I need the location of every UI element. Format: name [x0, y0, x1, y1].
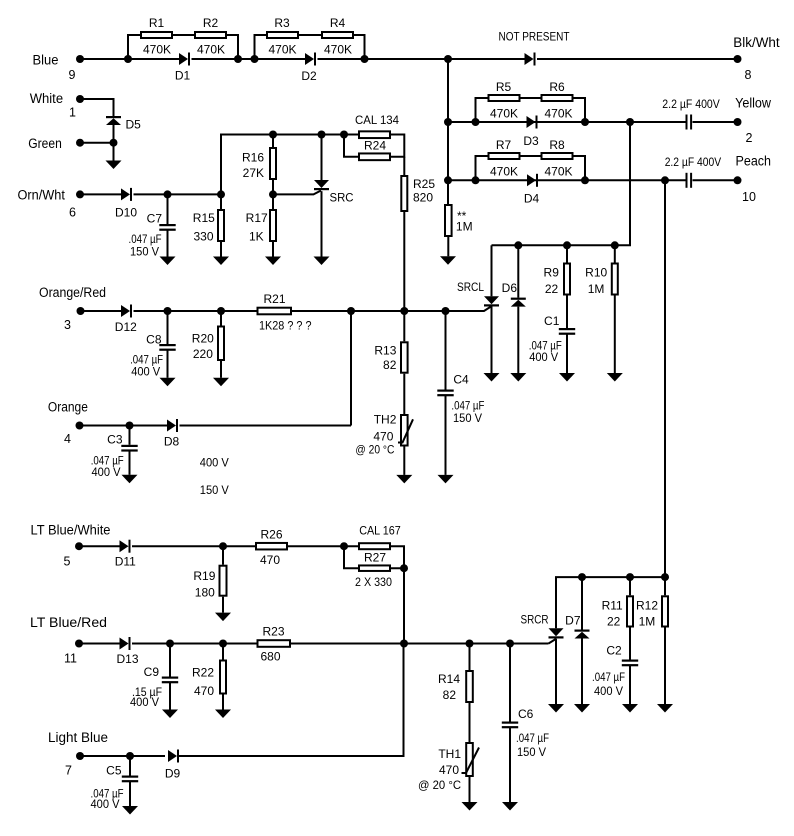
svg-text:C3: C3	[107, 433, 123, 447]
node LT Blue/White (pin 5) terminal	[31, 523, 111, 569]
diode D11	[115, 540, 136, 569]
text 400 V	[200, 456, 229, 470]
wire	[492, 122, 631, 245]
svg-text:C1: C1	[544, 314, 560, 328]
junction	[347, 307, 355, 315]
wire	[469, 777, 471, 802]
resistor R26 470	[256, 528, 287, 567]
svg-text:C8: C8	[146, 332, 162, 346]
wire	[272, 180, 274, 194]
junction	[661, 176, 669, 184]
resistor R14 82	[438, 644, 473, 703]
capacitor C4 .047uF 150V	[437, 311, 484, 425]
node Blue (pin 9) terminal	[33, 53, 85, 83]
ground	[213, 257, 229, 266]
diode D12	[115, 305, 137, 335]
wire SRC gate	[273, 191, 321, 195]
wire	[255, 35, 267, 59]
junction	[219, 640, 227, 648]
svg-text:4: 4	[64, 432, 71, 446]
svg-text:820: 820	[413, 191, 433, 205]
wire	[693, 179, 738, 181]
ground	[106, 161, 122, 170]
svg-text:680: 680	[260, 650, 280, 664]
wire	[509, 728, 511, 802]
junction	[626, 118, 634, 126]
diode D8	[164, 419, 180, 449]
svg-text:D9: D9	[165, 767, 181, 781]
wire	[448, 58, 525, 60]
junction	[400, 564, 408, 572]
wire	[447, 59, 449, 204]
svg-text:C4: C4	[453, 372, 469, 386]
svg-text:D11: D11	[115, 554, 136, 568]
wire	[298, 34, 321, 36]
resistor R27 2x330	[355, 550, 392, 589]
diode D9	[165, 750, 181, 781]
resistor CAL 167	[359, 524, 401, 550]
ground	[574, 704, 590, 713]
wire	[221, 135, 344, 195]
wire	[220, 242, 222, 257]
svg-text:180: 180	[195, 586, 215, 600]
junction	[466, 640, 474, 648]
ground	[215, 710, 231, 719]
wire	[403, 568, 405, 643]
svg-text:2: 2	[746, 131, 753, 145]
wire	[566, 296, 568, 329]
capacitor C5 .047uF 400V	[91, 756, 139, 811]
resistor R8 470K	[542, 138, 573, 179]
wire	[664, 628, 666, 705]
junction	[251, 55, 259, 63]
wire	[132, 643, 257, 645]
junction	[514, 241, 522, 249]
diode D7	[565, 577, 589, 638]
svg-text:5: 5	[64, 555, 71, 569]
svg-text:R15: R15	[193, 211, 215, 225]
junction	[340, 131, 348, 139]
ground	[657, 704, 673, 713]
wire	[491, 307, 493, 374]
node White (pin 1) terminal	[30, 91, 84, 120]
diode D4	[524, 174, 540, 206]
wire	[517, 307, 519, 373]
wire	[129, 451, 131, 475]
wire	[80, 99, 114, 117]
wire	[476, 156, 488, 180]
ground	[440, 256, 456, 265]
svg-text:TH1: TH1	[438, 747, 461, 761]
svg-text:R1: R1	[149, 16, 165, 30]
wire	[80, 193, 121, 195]
svg-text:R9: R9	[544, 266, 560, 280]
resistor R13 82	[374, 311, 407, 373]
svg-text:R23: R23	[262, 625, 284, 639]
resistor R15 330	[193, 194, 224, 243]
resistor CAL 134	[355, 113, 399, 138]
wire	[321, 191, 323, 256]
svg-text:D10: D10	[115, 206, 137, 220]
capacitor C2 .047uF 400V	[592, 644, 638, 698]
svg-text:D8: D8	[164, 435, 180, 449]
wire	[354, 35, 365, 59]
wire	[272, 242, 274, 257]
capacitor C3 .047uF 400V	[91, 426, 138, 480]
capacitor C9 .15uF 400V	[130, 644, 178, 710]
ground	[160, 378, 176, 387]
wire	[537, 58, 738, 60]
ground	[484, 373, 500, 382]
wire SRCL gate	[446, 307, 492, 312]
wire	[403, 157, 405, 175]
junction	[472, 176, 480, 184]
resistor R7 470K	[489, 138, 520, 179]
svg-text:470K: 470K	[324, 43, 352, 57]
svg-text:D2: D2	[301, 69, 317, 83]
junction	[340, 542, 348, 550]
svg-text:R19: R19	[193, 569, 215, 583]
wire	[80, 425, 168, 427]
wire	[288, 545, 358, 547]
resistor R3 470K	[267, 16, 298, 57]
svg-text:2 X 330: 2 X 330	[355, 575, 392, 589]
wire	[173, 34, 194, 36]
svg-text:470K: 470K	[143, 43, 171, 57]
wire	[469, 703, 471, 742]
resistor R16 27K	[242, 135, 276, 181]
ground	[213, 378, 229, 387]
thyristor SRCL	[457, 245, 499, 306]
wire	[344, 135, 358, 157]
svg-text:470: 470	[439, 763, 459, 777]
thermistor TH2 470	[355, 413, 413, 457]
svg-text:150 V: 150 V	[517, 745, 546, 759]
svg-text:11: 11	[64, 652, 77, 666]
svg-text:400 V: 400 V	[594, 684, 623, 698]
svg-text:D13: D13	[116, 652, 138, 666]
svg-text:400 V: 400 V	[130, 695, 159, 709]
junction	[581, 118, 589, 126]
junction	[318, 131, 326, 139]
diode D6	[502, 245, 526, 306]
wire	[222, 597, 224, 613]
svg-text:R20: R20	[192, 332, 214, 346]
junction	[400, 640, 408, 648]
wire	[220, 361, 222, 378]
svg-text:Blk/Wht: Blk/Wht	[733, 35, 780, 50]
resistor R4 470K	[322, 16, 353, 57]
junction	[124, 55, 132, 63]
resistor R2 470K	[195, 16, 226, 57]
svg-text:D3: D3	[523, 134, 539, 148]
svg-text:@ 20 °C: @ 20 °C	[418, 778, 461, 792]
svg-text:Blue: Blue	[33, 53, 59, 68]
ground	[438, 475, 454, 484]
wire	[555, 639, 557, 704]
svg-text:Green: Green	[28, 136, 62, 151]
svg-text:R11: R11	[602, 598, 623, 612]
wire	[227, 35, 238, 59]
svg-text:2.2 µF 400V: 2.2 µF 400V	[665, 155, 722, 169]
diode D13	[116, 637, 138, 666]
wire	[128, 58, 179, 60]
wire	[614, 296, 616, 374]
junction	[361, 55, 369, 63]
wire	[167, 230, 169, 256]
svg-text:.047 µF: .047 µF	[516, 731, 549, 745]
svg-text:C5: C5	[106, 764, 122, 778]
svg-text:1: 1	[69, 106, 76, 120]
svg-text:R8: R8	[549, 138, 565, 152]
wire	[403, 447, 405, 475]
node Green terminal	[28, 136, 84, 151]
junction	[219, 542, 227, 550]
svg-text:470K: 470K	[490, 107, 518, 121]
svg-text:R21: R21	[263, 292, 285, 306]
wire	[521, 155, 541, 157]
resistor R1 470K	[141, 16, 172, 57]
svg-text:D6: D6	[502, 281, 518, 295]
svg-text:R26: R26	[260, 528, 282, 542]
ground	[162, 710, 178, 719]
svg-text:R17: R17	[246, 211, 268, 225]
svg-text:2.2 µF 400V: 2.2 µF 400V	[662, 97, 720, 111]
junction	[269, 190, 277, 198]
resistor ** 1M	[445, 205, 473, 236]
svg-text:1M: 1M	[639, 615, 656, 629]
svg-text:CAL 134: CAL 134	[355, 113, 399, 127]
capacitor C7 .047uF 150V	[129, 194, 176, 258]
svg-text:D7: D7	[565, 614, 581, 628]
ground	[502, 802, 518, 811]
wire	[113, 125, 115, 143]
wire	[167, 350, 169, 378]
wire	[344, 134, 358, 136]
wire	[574, 156, 586, 180]
svg-text:R12: R12	[636, 598, 658, 612]
wire	[180, 425, 352, 427]
junction	[444, 55, 452, 63]
wire	[79, 545, 120, 547]
resistor R5 470K	[489, 80, 520, 120]
ground	[265, 257, 281, 266]
svg-text:27K: 27K	[243, 166, 264, 180]
svg-text:CAL 167: CAL 167	[359, 524, 401, 538]
svg-text:400 V: 400 V	[92, 465, 121, 479]
svg-text:470K: 470K	[268, 43, 296, 57]
svg-text:R27: R27	[364, 550, 386, 564]
svg-text:R7: R7	[496, 138, 512, 152]
text 150 V	[200, 483, 229, 497]
thyristor SRCR	[521, 613, 564, 639]
thermistor TH1 470	[418, 743, 479, 792]
junction	[269, 131, 277, 139]
svg-text:R13: R13	[374, 343, 396, 357]
resistor R17 1K	[246, 194, 276, 243]
svg-text:8: 8	[745, 68, 752, 82]
ground	[622, 704, 638, 713]
svg-text:R22: R22	[192, 666, 214, 680]
ground	[548, 704, 564, 713]
wire	[129, 782, 131, 806]
junction	[581, 176, 589, 184]
svg-text:R25: R25	[413, 177, 435, 191]
junction	[442, 307, 450, 315]
junction	[444, 118, 452, 126]
wire	[178, 644, 404, 757]
wire	[476, 98, 488, 122]
svg-text:Peach: Peach	[736, 154, 772, 169]
wire SRCR gate	[549, 639, 557, 644]
node Orn/Wht (pin 6) terminal	[18, 187, 85, 219]
svg-text:C6: C6	[518, 707, 534, 721]
svg-text:1M: 1M	[588, 282, 605, 296]
resistor R20 220	[192, 311, 224, 361]
svg-text:9: 9	[69, 68, 76, 82]
svg-text:R14: R14	[438, 672, 460, 686]
node Peach (pin 10) terminal	[734, 154, 772, 205]
svg-text:C7: C7	[147, 211, 163, 225]
ground	[122, 806, 138, 815]
wire	[403, 212, 405, 311]
ground	[314, 257, 330, 266]
svg-text:C9: C9	[144, 665, 160, 679]
svg-text:150 V: 150 V	[200, 483, 229, 497]
svg-text:150 V: 150 V	[130, 245, 159, 259]
wire	[318, 58, 449, 60]
resistor R25 820	[401, 176, 435, 211]
svg-text:Yellow: Yellow	[735, 95, 771, 110]
svg-text:NOT PRESENT: NOT PRESENT	[499, 30, 571, 44]
svg-text:R3: R3	[274, 16, 290, 30]
junction	[126, 422, 134, 430]
junction	[444, 176, 452, 184]
svg-text:470K: 470K	[544, 107, 572, 121]
ground	[122, 475, 138, 484]
svg-text:R24: R24	[364, 138, 386, 152]
wire	[80, 755, 165, 757]
junction	[563, 241, 571, 249]
wire	[132, 545, 255, 547]
svg-text:Orange: Orange	[48, 400, 88, 415]
svg-text:R5: R5	[496, 80, 512, 94]
junction	[661, 573, 669, 581]
ground	[160, 257, 176, 266]
svg-text:White: White	[30, 91, 63, 106]
resistor R22 470	[192, 644, 226, 698]
wire	[255, 58, 306, 60]
ground	[559, 373, 575, 382]
capacitor C1 .047uF 400V	[529, 314, 575, 364]
wire	[391, 135, 404, 157]
svg-text:400 V: 400 V	[529, 350, 558, 364]
node Light Blue (pin 7) terminal	[48, 730, 108, 778]
wire	[521, 97, 541, 99]
wire	[79, 643, 120, 645]
thyristor SRC	[314, 135, 354, 205]
wire	[391, 546, 404, 568]
svg-text:7: 7	[65, 764, 72, 778]
junction	[110, 139, 118, 147]
svg-text:22: 22	[607, 615, 621, 629]
svg-text:Orange/Red: Orange/Red	[39, 285, 106, 300]
svg-text:1M: 1M	[456, 219, 473, 233]
svg-text:LT Blue/Red: LT Blue/Red	[30, 615, 107, 630]
junction	[578, 573, 586, 581]
capacitor 2.2uF 400V (Peach)	[665, 155, 722, 188]
svg-text:D12: D12	[115, 320, 137, 334]
diode D1	[175, 53, 191, 83]
wire	[344, 546, 358, 568]
junction	[126, 752, 134, 760]
wire	[445, 396, 447, 475]
svg-text:470: 470	[260, 553, 280, 567]
svg-text:330: 330	[193, 230, 213, 244]
svg-text:1K: 1K	[249, 230, 264, 244]
wire	[80, 142, 114, 144]
svg-text:R6: R6	[549, 80, 565, 94]
svg-text:1K28 ? ? ?: 1K28 ? ? ?	[259, 319, 312, 333]
svg-text:400 V: 400 V	[91, 797, 120, 811]
svg-text:470K: 470K	[544, 165, 572, 179]
wire	[128, 35, 140, 59]
resistor R24	[359, 138, 390, 160]
junction	[506, 640, 514, 648]
svg-text:150 V: 150 V	[453, 411, 482, 425]
wire	[693, 121, 738, 123]
wire	[81, 310, 122, 312]
svg-text:C2: C2	[606, 644, 622, 658]
svg-text:D1: D1	[175, 69, 191, 83]
junction	[472, 118, 480, 126]
svg-text:10: 10	[742, 190, 756, 204]
svg-text:82: 82	[383, 358, 397, 372]
wire	[664, 180, 666, 577]
node Blk/Wht (pin 8) terminal	[733, 35, 780, 82]
resistor R10 1M	[585, 245, 618, 296]
ground	[462, 802, 478, 811]
junction	[234, 55, 242, 63]
node LT Blue/Red (pin 11) terminal	[30, 615, 107, 666]
capacitor C8 .047uF 400V	[130, 311, 176, 378]
wire	[448, 121, 686, 123]
resistor R12 1M	[636, 577, 668, 628]
svg-text:D4: D4	[524, 192, 540, 206]
wire	[113, 143, 115, 161]
svg-text:R10: R10	[585, 266, 607, 280]
svg-text:6: 6	[69, 206, 76, 220]
diode D2	[301, 53, 317, 84]
svg-text:R4: R4	[330, 16, 346, 30]
junction	[166, 640, 174, 648]
wire	[291, 643, 549, 645]
resistor R11 22	[602, 577, 633, 628]
capacitor C6 .047uF 150V	[502, 644, 549, 760]
svg-text:22: 22	[545, 282, 559, 296]
wire	[566, 334, 568, 373]
resistor R21 1K28	[258, 292, 312, 333]
wire	[292, 310, 446, 312]
node Orange/Red (pin 3) terminal	[39, 285, 106, 332]
svg-text:SRC: SRC	[330, 191, 354, 205]
svg-text:R16: R16	[242, 151, 264, 165]
svg-text:220: 220	[193, 347, 213, 361]
resistor R19 180	[193, 546, 226, 599]
wire	[222, 695, 224, 710]
junction	[164, 307, 172, 315]
svg-text:R2: R2	[203, 16, 219, 30]
